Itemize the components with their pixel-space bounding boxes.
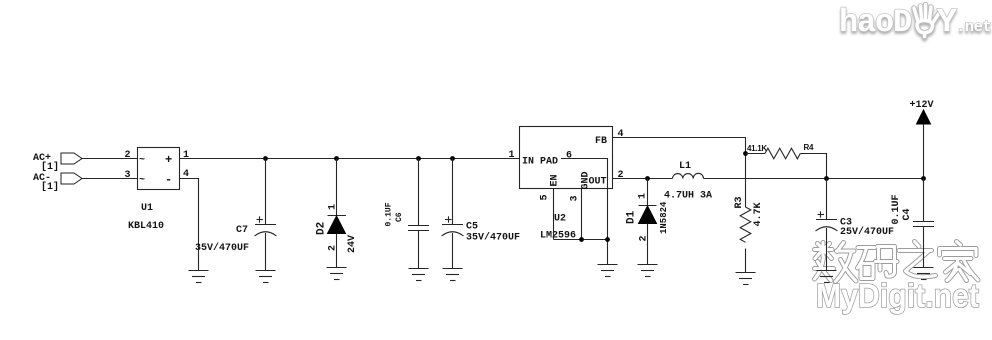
value 4.7UH 3A (L1) xyxy=(664,191,712,202)
regulator U2 body xyxy=(520,127,613,190)
bridge rectifier U1 body xyxy=(138,148,180,190)
wire D2 top stub xyxy=(336,159,338,216)
pin number 4 (U2 FB) xyxy=(618,129,624,140)
label R3 xyxy=(734,196,745,208)
zener diode D2 symbol xyxy=(328,216,347,234)
inductor L1 xyxy=(673,173,704,178)
svg-text:4.7UH 3A: 4.7UH 3A xyxy=(664,191,712,202)
label R4 xyxy=(804,143,814,152)
ground (D1) xyxy=(638,265,658,277)
node junction OUT/C3/R4 xyxy=(824,176,829,181)
pin number 2 (U1) xyxy=(125,150,131,161)
wire C5 bottom stub xyxy=(452,233,454,269)
diode D1 symbol xyxy=(639,206,657,224)
wire C3 top stub xyxy=(826,179,828,220)
svg-text:1N5824: 1N5824 xyxy=(659,201,669,234)
watermark MyDigit.net xyxy=(816,277,979,314)
wire D1 bottom stub xyxy=(647,224,649,265)
svg-text:Y: Y xyxy=(937,4,957,41)
label AC+ xyxy=(33,153,59,173)
node junction GND link xyxy=(579,237,584,242)
pin number 1 (U2 IN) xyxy=(509,150,515,161)
svg-text:D2: D2 xyxy=(316,222,328,235)
label D2 xyxy=(316,222,328,235)
watermark 数码之家 xyxy=(815,242,979,282)
svg-text:35V/470UF: 35V/470UF xyxy=(466,232,520,244)
pin number 1 (U1) xyxy=(183,150,189,161)
wire C4 bottom stub xyxy=(923,227,925,268)
node junction rail/C7 xyxy=(263,156,268,161)
svg-text:-: - xyxy=(165,173,172,187)
value 35V/470UF (C7) xyxy=(195,242,249,254)
pin number 3 (U2 GND) xyxy=(570,195,581,201)
power +12V label xyxy=(910,100,934,111)
svg-text:D1: D1 xyxy=(626,210,638,224)
svg-text:[1]: [1] xyxy=(41,181,59,193)
wire U1 pin1 input rail to U2 IN xyxy=(180,158,520,160)
ground (C5) xyxy=(443,269,463,281)
pin number 2 (D2) xyxy=(328,245,339,251)
pin number 1 (D1) xyxy=(638,193,649,199)
svg-text:35V/470UF: 35V/470UF xyxy=(195,242,249,254)
label U1 xyxy=(141,203,153,214)
svg-text:5: 5 xyxy=(540,194,551,200)
svg-text:24V: 24V xyxy=(347,235,358,253)
ground (D2) xyxy=(327,268,347,280)
wire C6 top stub xyxy=(418,159,420,226)
label D1 xyxy=(626,210,638,224)
label C5 xyxy=(466,222,478,233)
pin number 5 (U2 EN) xyxy=(540,194,551,200)
svg-text:EN: EN xyxy=(550,174,561,186)
value 0.1UF (C6) xyxy=(385,202,394,226)
svg-text:GND: GND xyxy=(581,171,592,189)
svg-text:3: 3 xyxy=(570,195,581,201)
svg-text:.net: .net xyxy=(956,18,991,36)
svg-text:IN PAD: IN PAD xyxy=(522,157,558,168)
value 1N5824 (D1) xyxy=(659,201,669,234)
svg-text:1: 1 xyxy=(509,150,515,161)
pin number 4 (U1) xyxy=(183,169,189,180)
svg-text:25V/470UF: 25V/470UF xyxy=(840,226,894,238)
wire OUT rail middle part xyxy=(704,178,924,180)
svg-text:1: 1 xyxy=(183,150,189,161)
pin number 1 (D2) xyxy=(328,204,339,210)
wire U2 OUT rail left part xyxy=(613,178,673,180)
svg-text:+: + xyxy=(165,153,172,167)
svg-text:1: 1 xyxy=(638,193,649,199)
node junction OUT/C4 xyxy=(921,176,926,181)
svg-text:C4: C4 xyxy=(902,208,913,220)
svg-text:41.1K: 41.1K xyxy=(747,144,767,153)
wire D1 top stub xyxy=(647,179,649,206)
watermark logo haoDY.net xyxy=(839,4,991,41)
value 25V/470UF (C3) xyxy=(840,226,894,238)
ground (C7) xyxy=(256,271,276,283)
svg-text:MyDigit.net: MyDigit.net xyxy=(816,277,979,314)
wire U2 EN pin5 down xyxy=(553,189,555,240)
value 24V (D2) xyxy=(347,235,358,253)
capacitor C7 symbol (polar) xyxy=(255,216,277,236)
svg-text:L1: L1 xyxy=(679,161,691,172)
ground (C4) xyxy=(914,268,934,280)
capacitor C5 symbol (polar) xyxy=(442,216,464,236)
wire U2 PAD pin6 to ground xyxy=(561,159,608,265)
port AC- connector xyxy=(61,173,82,184)
ground (U1 pin4) xyxy=(189,271,209,283)
svg-text:2: 2 xyxy=(639,235,650,241)
wire AC+ to U1 pin2 xyxy=(82,158,138,160)
svg-text:4.7K: 4.7K xyxy=(753,202,764,226)
ground (C3) xyxy=(817,271,837,283)
pin number 2 (D1) xyxy=(639,235,650,241)
label C3 xyxy=(840,218,852,229)
svg-text:[1]: [1] xyxy=(41,161,59,173)
pin number 6 (U2 PAD) xyxy=(566,151,572,162)
label C4 xyxy=(902,208,913,220)
wire C6 bottom stub xyxy=(418,231,420,269)
wire +12V down to rail xyxy=(923,124,925,179)
node junction rail/D2 xyxy=(334,156,339,161)
wire C7 bottom stub xyxy=(265,233,267,271)
pin number 2 (U2 OUT) xyxy=(618,170,624,181)
label C6 xyxy=(395,212,404,222)
svg-text:2: 2 xyxy=(618,170,624,181)
label AC- xyxy=(33,173,59,193)
svg-text:haoD: haoD xyxy=(839,4,911,41)
svg-text:1: 1 xyxy=(328,204,339,210)
port AC+ connector xyxy=(61,153,82,164)
svg-text:U1: U1 xyxy=(141,203,153,214)
svg-text:+12V: +12V xyxy=(910,100,934,111)
capacitor C4 symbol xyxy=(913,222,934,227)
value 0.1UF (C4) xyxy=(891,194,902,224)
wire C4 top stub xyxy=(923,179,925,222)
svg-text:4: 4 xyxy=(618,129,624,140)
label L1 xyxy=(679,161,691,172)
value 41.1K (R4) xyxy=(747,144,767,153)
svg-text:C6: C6 xyxy=(395,212,404,222)
value LM2596 (U2) xyxy=(540,231,576,242)
svg-text:0.1UF: 0.1UF xyxy=(891,194,902,224)
svg-text:~: ~ xyxy=(139,175,145,186)
ground (U2) xyxy=(598,265,618,277)
capacitor C6 symbol xyxy=(408,226,429,231)
power +12V arrow xyxy=(917,110,931,124)
svg-text:3: 3 xyxy=(125,170,131,181)
pin number 3 (U1) xyxy=(125,170,131,181)
capacitor C3 symbol (polar) xyxy=(816,211,838,231)
svg-text:6: 6 xyxy=(566,151,572,162)
svg-text:C7: C7 xyxy=(236,225,248,236)
wire C5 top stub xyxy=(452,159,454,225)
value 35V/470UF (C5) xyxy=(466,232,520,244)
node junction OUT/D1 xyxy=(645,176,650,181)
wire C7 top stub xyxy=(265,159,267,225)
svg-text:KBL410: KBL410 xyxy=(128,221,164,232)
svg-text:U2: U2 xyxy=(554,214,566,225)
svg-text:R4: R4 xyxy=(804,143,814,152)
svg-text:C5: C5 xyxy=(466,222,478,233)
label U2 xyxy=(554,214,566,225)
wire U1 pin4 down to ground xyxy=(180,179,199,271)
svg-text:2: 2 xyxy=(328,245,339,251)
node junction rail/C5 xyxy=(450,156,455,161)
wire C3 bottom stub xyxy=(826,228,828,271)
value KBL410 xyxy=(128,221,164,232)
svg-text:0.1UF: 0.1UF xyxy=(385,202,394,226)
svg-text:~: ~ xyxy=(139,155,145,166)
resistor R3 xyxy=(740,207,751,273)
node junction rail/C6 xyxy=(416,156,421,161)
wire EN-GND-PAD link xyxy=(554,239,608,241)
node junction PAD link xyxy=(605,237,610,242)
svg-text:R3: R3 xyxy=(734,196,745,208)
wire D2 bottom stub xyxy=(336,234,338,268)
label C7 xyxy=(236,225,248,236)
ground (R3) xyxy=(736,273,756,285)
node junction FB divider / R4 xyxy=(743,151,748,156)
wire U2 FB pin4 to divider xyxy=(613,138,746,208)
svg-text:2: 2 xyxy=(125,150,131,161)
value 4.7K (R3) xyxy=(753,202,764,226)
wire U2 GND pin3 down xyxy=(581,189,583,240)
wire AC- to U1 pin3 xyxy=(82,178,138,180)
ground (C6) xyxy=(409,269,429,281)
svg-text:FB: FB xyxy=(595,136,607,147)
resistor R4 xyxy=(746,148,827,178)
